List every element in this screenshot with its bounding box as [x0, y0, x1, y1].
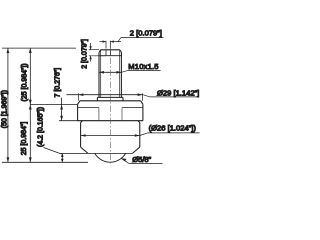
leader Ø5/8": [121, 158, 162, 163]
svg-text:2 [0.079”]: 2 [0.079”]: [130, 29, 162, 38]
center line: [109, 46, 111, 164]
dimension M10 line: [99, 70, 161, 73]
flange Ø29 outline: [78, 101, 143, 121]
wire bottom extension line: [2, 161, 88, 163]
wire extension flange bottom left: [59, 120, 78, 122]
dimension 4.2 [0.165"]: [44, 148, 64, 163]
stud bottom line: [97, 96, 123, 98]
svg-text:Ø29 [1.142”]: Ø29 [1.142”]: [157, 89, 199, 98]
svg-text:25 [0.984”]: 25 [0.984”]: [21, 122, 28, 156]
dimension 50 [1.969"] line: [7, 48, 10, 162]
svg-text:(50 [1.969”]): (50 [1.969”]): [1, 90, 8, 128]
bottom face line: [61, 152, 133, 154]
svg-text:(Ø26 [1.024”]): (Ø26 [1.024”]): [149, 124, 197, 133]
dimension slot width 2 [0.079"]: [100, 38, 164, 49]
svg-text:Ø5/8”: Ø5/8”: [132, 155, 151, 164]
svg-text:(4.2 [0.165”]): (4.2 [0.165”]): [38, 107, 45, 147]
dimension 7 [0.276"]: [60, 98, 63, 121]
stud M10 outline: [99, 50, 121, 98]
dimension Ø29 line: [67, 93, 200, 101]
neck: [97, 97, 123, 100]
wire top extension line: [2, 47, 76, 49]
svg-text:(25 [0.984”]): (25 [0.984”]): [22, 63, 29, 101]
slot cut: [99, 50, 121, 56]
flange hex corner lines: [99, 108, 122, 121]
flange chamfer lines: [78, 107, 143, 109]
dimension slot depth 2 [0.079"] vertical: [89, 43, 106, 62]
dimension Ø26 line: [81, 133, 200, 137]
dome contact ball: [95, 153, 126, 162]
body Ø26 outline: [81, 121, 140, 154]
dimension 25/25 line: [29, 48, 32, 162]
svg-text:2 [0.079”]: 2 [0.079”]: [82, 39, 89, 69]
wire extension line at flange corner y=104.6: [30, 104, 77, 106]
svg-text:M10x1.5: M10x1.5: [128, 62, 158, 71]
svg-text:7 [0.276”]: 7 [0.276”]: [55, 68, 62, 98]
stud thread root lines: [101, 50, 120, 98]
